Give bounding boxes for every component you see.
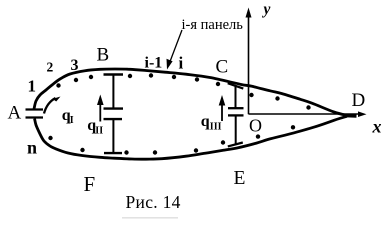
svg-text:F: F [84, 172, 96, 196]
svg-text:y: y [262, 1, 271, 18]
svg-text:i-1: i-1 [145, 55, 163, 72]
svg-text:III: III [210, 121, 222, 132]
svg-text:D: D [352, 90, 366, 111]
svg-text:2: 2 [47, 59, 54, 74]
svg-text:n: n [27, 138, 37, 158]
svg-text:x: x [372, 117, 382, 137]
svg-text:A: A [8, 103, 22, 124]
svg-text:1: 1 [28, 77, 37, 96]
svg-text:I: I [70, 115, 74, 126]
svg-text:3: 3 [71, 57, 79, 74]
svg-text:i-я панель: i-я панель [182, 17, 244, 33]
svg-text:Рис. 14: Рис. 14 [126, 192, 181, 212]
svg-text:II: II [95, 126, 103, 137]
svg-text:O: O [249, 116, 262, 136]
svg-text:C: C [216, 57, 229, 78]
svg-text:E: E [234, 168, 246, 189]
svg-text:B: B [97, 45, 110, 66]
svg-text:i: i [179, 54, 184, 73]
svg-text:q: q [201, 113, 210, 130]
